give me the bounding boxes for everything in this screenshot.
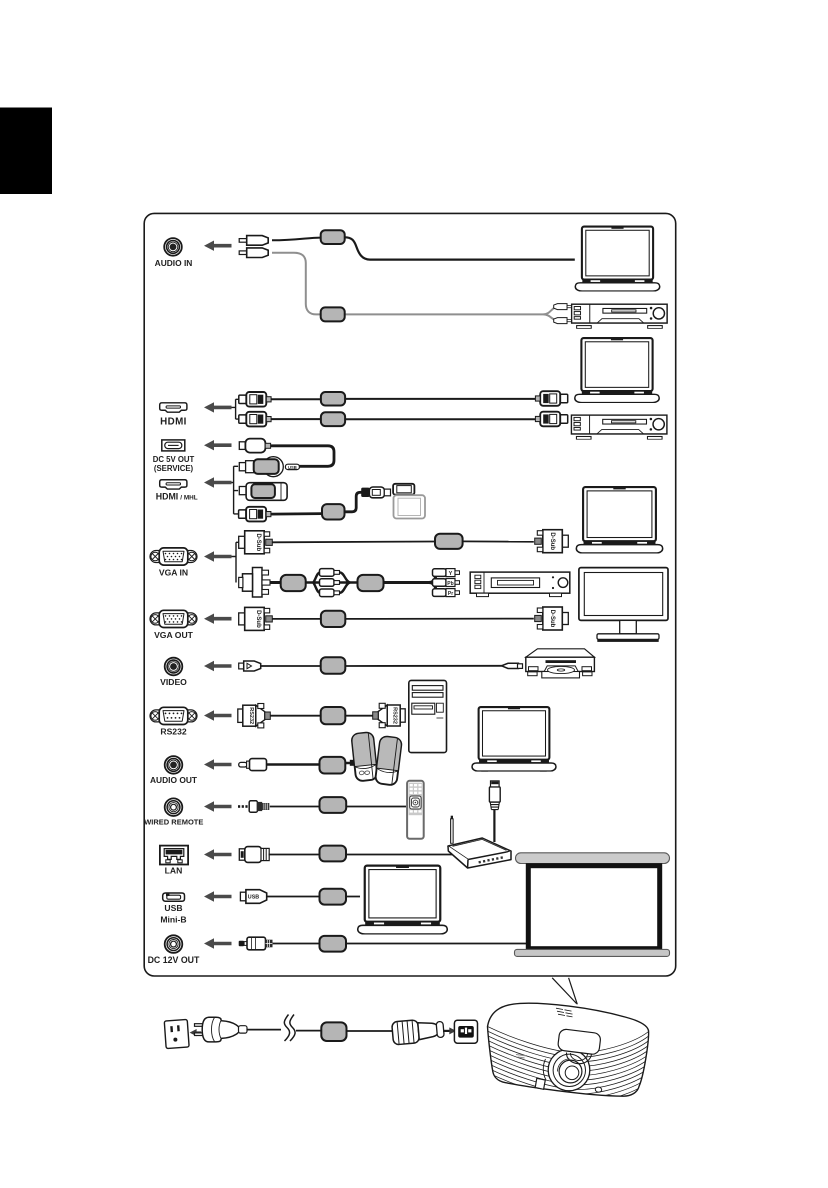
svg-text:/ MHL: / MHL (180, 494, 197, 501)
svg-text:RS232: RS232 (248, 707, 254, 724)
svg-text:RS232: RS232 (392, 707, 398, 724)
svg-text:RS232: RS232 (160, 726, 186, 736)
svg-text:VGA OUT: VGA OUT (154, 630, 194, 640)
svg-text:D-Sub: D-Sub (255, 533, 261, 551)
svg-text:DC 5V OUT: DC 5V OUT (153, 455, 195, 464)
svg-text:USB: USB (248, 895, 259, 901)
svg-text:USB: USB (164, 903, 182, 913)
svg-text:Pr: Pr (448, 591, 453, 597)
svg-text:AUDIO OUT: AUDIO OUT (150, 775, 198, 785)
svg-text:(SERVICE): (SERVICE) (154, 464, 194, 473)
svg-text:VIDEO: VIDEO (160, 677, 187, 687)
svg-text:USB: USB (288, 465, 297, 470)
svg-text:VGA IN: VGA IN (159, 567, 188, 577)
svg-text:DC 12V OUT: DC 12V OUT (148, 955, 200, 965)
svg-text:WIRED REMOTE: WIRED REMOTE (144, 818, 203, 827)
svg-text:Y: Y (449, 571, 453, 577)
svg-text:HDMI: HDMI (156, 491, 178, 501)
svg-text:Pb: Pb (447, 581, 453, 587)
svg-text:D-Sub: D-Sub (255, 610, 261, 628)
svg-text:LAN: LAN (165, 865, 183, 875)
svg-text:D-Sub: D-Sub (549, 532, 555, 550)
svg-text:Mini-B: Mini-B (160, 915, 186, 925)
svg-text:HDMI: HDMI (160, 417, 187, 428)
svg-text:D-Sub: D-Sub (549, 610, 555, 628)
svg-text:AUDIO IN: AUDIO IN (155, 258, 193, 268)
